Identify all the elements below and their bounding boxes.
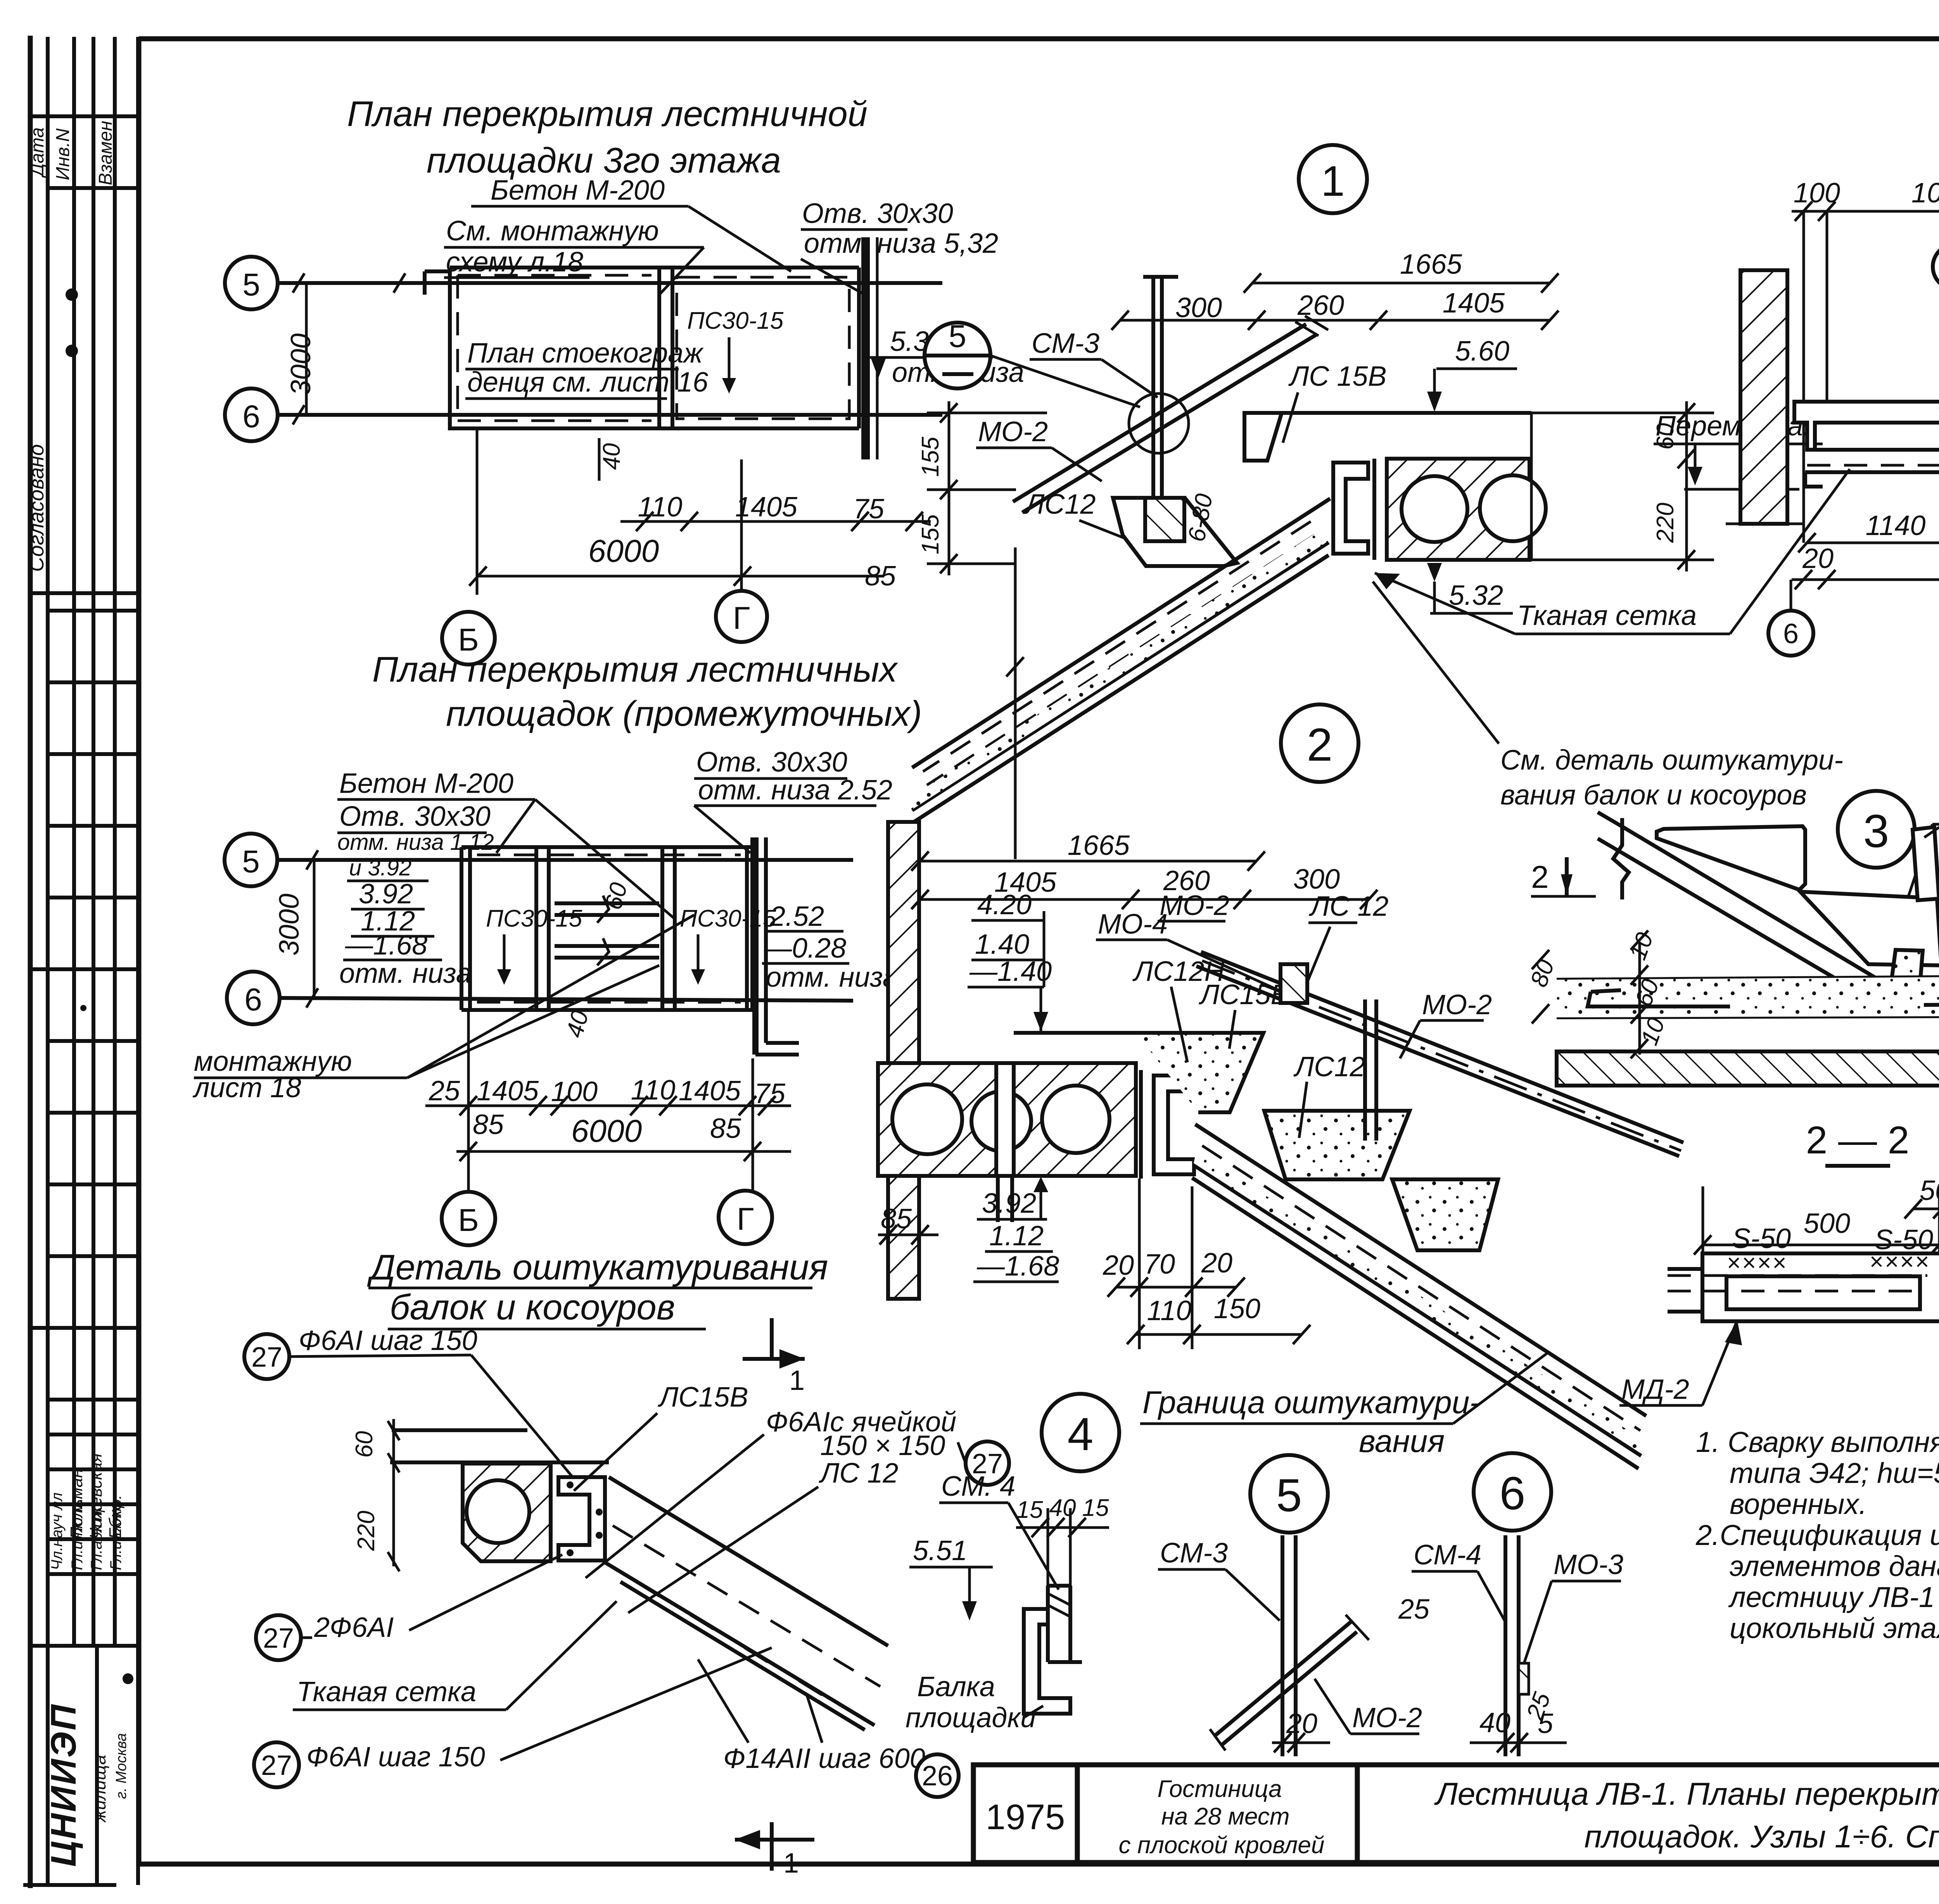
node circle 2: [1281, 704, 1358, 782]
svg-text:Лестница ЛВ-1. Планы перекрыти: Лестница ЛВ-1. Планы перекрытий лестничн…: [1434, 1776, 1939, 1812]
svg-text:27: 27: [261, 1750, 292, 1781]
svg-text:Бетон М-200: Бетон М-200: [339, 768, 513, 799]
svg-text:1665: 1665: [1400, 249, 1462, 280]
CNIIEP logo block: [44, 1703, 130, 1867]
svg-text:3.92: 3.92: [359, 879, 413, 910]
svg-text:5.60: 5.60: [1455, 336, 1509, 367]
dim 6000: [477, 575, 884, 578]
svg-text:Отв. 30х30: Отв. 30х30: [339, 801, 491, 832]
svg-text:Ф14АII шаг 600: Ф14АII шаг 600: [723, 1743, 925, 1774]
beton wedge: [1892, 950, 1923, 980]
svg-text:ЛС15В: ЛС15В: [658, 1382, 748, 1413]
svg-text:воренных.: воренных.: [1730, 1488, 1867, 1520]
svg-text:3.92: 3.92: [982, 1188, 1036, 1219]
landing beam trapezoid: [1113, 498, 1237, 566]
svg-text:—1.40: —1.40: [969, 956, 1052, 987]
svg-text:ЛС 12: ЛС 12: [1309, 891, 1388, 922]
svg-text:85: 85: [710, 1113, 741, 1144]
svg-text:6: 6: [242, 399, 260, 434]
svg-text:площадок. Узлы 1÷6. Специфика: площадок. Узлы 1÷6. Спецификации.: [1584, 1819, 1939, 1854]
svg-text:Взамен: Взамен: [95, 121, 116, 186]
landing floor top line: [1244, 411, 1531, 415]
svg-text:155: 155: [917, 437, 944, 477]
svg-text:∟40х4; ℓ=1000: ∟40х4; ℓ=1000: [1936, 792, 1939, 823]
svg-text:75: 75: [754, 1078, 786, 1109]
svg-text:6000: 6000: [571, 1113, 642, 1149]
svg-text:85: 85: [865, 561, 896, 592]
svg-text:См. монтажную: См. монтажную: [446, 216, 659, 247]
callout 27 mid: [256, 1615, 301, 1660]
landing slab outline: [425, 268, 859, 430]
svg-text:МД-2: МД-2: [1621, 1374, 1689, 1405]
svg-text:площадки: площадки: [906, 1702, 1036, 1733]
stair stringer diagonals: [609, 1477, 888, 1646]
hollow-core slab: [878, 1063, 1136, 1176]
svg-text:5: 5: [1538, 1708, 1554, 1739]
svg-text:лист 18: лист 18: [192, 1072, 301, 1103]
svg-text:денця см. лист 16: денця см. лист 16: [467, 367, 709, 398]
svg-text:2.52: 2.52: [769, 901, 824, 932]
svg-text:МО-2: МО-2: [1352, 1702, 1422, 1733]
svg-text:6: 6: [1783, 618, 1799, 649]
channel beam: [558, 1477, 605, 1560]
svg-text:Балка: Балка: [917, 1671, 995, 1702]
svg-text:220: 220: [1652, 503, 1679, 543]
vertical dim 3000: [305, 283, 308, 415]
outer sheet edge left: [28, 36, 33, 1888]
svg-text:1405: 1405: [735, 492, 798, 523]
callout 27: [966, 1441, 1009, 1485]
node circle 4: [1042, 1394, 1119, 1471]
svg-text:5.32: 5.32: [1449, 580, 1503, 611]
svg-text:Тканая сетка: Тканая сетка: [297, 1676, 476, 1707]
svg-text:ПС30-15: ПС30-15: [680, 905, 776, 932]
dim row: [425, 1105, 791, 1107]
svg-text:300: 300: [1293, 864, 1340, 895]
svg-text:4: 4: [1068, 1408, 1094, 1460]
node circle 5: [1250, 1455, 1328, 1533]
svg-text:отм. низа: отм. низа: [339, 958, 472, 989]
svg-text:типа Э42; hш=5мм, кроме ого-: типа Э42; hш=5мм, кроме ого-: [1730, 1457, 1939, 1489]
svg-text:Ф6АI шаг 150: Ф6АI шаг 150: [306, 1742, 485, 1773]
svg-text:5: 5: [242, 267, 260, 302]
plate body: [1702, 1253, 1939, 1321]
svg-text:цокольный этаж).: цокольный этаж).: [1730, 1612, 1939, 1644]
svg-text:25: 25: [1398, 1594, 1430, 1625]
svg-text:500: 500: [1804, 1208, 1850, 1239]
svg-text:План перекрытия лестничной: План перекрытия лестничной: [347, 94, 868, 134]
svg-text:лестницу ЛВ-1 (включая: лестницу ЛВ-1 (включая: [1728, 1581, 1939, 1613]
svg-text:25: 25: [429, 1075, 460, 1106]
svg-text:S-50: S-50: [1732, 1223, 1791, 1254]
svg-text:2.Спецификация и выборка: 2.Спецификация и выборка: [1695, 1519, 1939, 1551]
svg-text:70: 70: [1144, 1249, 1175, 1280]
svg-text:5: 5: [1276, 1469, 1302, 1521]
svg-text:150: 150: [1214, 1293, 1260, 1324]
svg-text:Чижевская: Чижевская: [86, 1453, 105, 1539]
svg-text:ПС30-15: ПС30-15: [486, 905, 582, 932]
svg-text:100: 100: [551, 1076, 598, 1107]
hollow core slab block: [463, 1464, 551, 1561]
svg-text:г. Москва: г. Москва: [113, 1733, 130, 1799]
svg-text:6: 6: [1500, 1467, 1526, 1519]
weld circle: [1129, 394, 1189, 453]
svg-text:110: 110: [638, 492, 683, 523]
svg-text:300: 300: [1175, 292, 1222, 323]
svg-text:Польман: Польман: [67, 1469, 86, 1539]
svg-text:Бетон М-200: Бетон М-200: [491, 175, 665, 206]
svg-text:1.40: 1.40: [975, 929, 1029, 960]
upper flight diagonals: [1201, 952, 1683, 1143]
left wall: [1740, 270, 1787, 524]
svg-text:1: 1: [783, 1848, 799, 1879]
wall right: [752, 837, 759, 1055]
svg-text:60: 60: [1652, 423, 1679, 450]
svg-text:1405: 1405: [1443, 288, 1505, 319]
svg-text:S-50: S-50: [1874, 1224, 1933, 1255]
svg-text:—1.68: —1.68: [345, 930, 427, 961]
svg-text:на 28 мест: на 28 мест: [1161, 1803, 1290, 1830]
svg-text:20: 20: [1802, 543, 1834, 574]
svg-text:площадки 3го этажа: площадки 3го этажа: [427, 141, 781, 180]
circle 26: [1933, 244, 1939, 289]
svg-text:с плоской кровлей: с плоской кровлей: [1119, 1832, 1325, 1859]
right edge + dims: [1530, 413, 1533, 560]
svg-text:схему л.18: схему л.18: [446, 247, 583, 278]
svg-text:Деталь оштукатуривания: Деталь оштукатуривания: [367, 1248, 828, 1287]
grid circles: [225, 834, 277, 886]
svg-text:Отв. 30х30: Отв. 30х30: [696, 747, 847, 778]
svg-text:МО-4: МО-4: [1098, 909, 1168, 940]
svg-text:26: 26: [922, 1761, 953, 1792]
section marks 1: [743, 1318, 805, 1359]
lower flight band: [1195, 1124, 1646, 1416]
svg-text:27: 27: [263, 1623, 294, 1654]
svg-text:отм. низа 5,32: отм. низа 5,32: [804, 228, 998, 259]
svg-text:МО-2: МО-2: [1422, 989, 1492, 1020]
svg-text:См. деталь оштукатури-: См. деталь оштукатури-: [1500, 745, 1843, 776]
lower flight band: [912, 499, 1330, 768]
callout 27 top: [244, 1334, 289, 1379]
6000 dim: [456, 1150, 791, 1153]
svg-text:1: 1: [1321, 157, 1345, 205]
wall right: [861, 237, 870, 459]
svg-text:Тканая сетка: Тканая сетка: [1517, 600, 1697, 631]
svg-text:План перекрытия лестничных: План перекрытия лестничных: [372, 650, 898, 689]
svg-text:85: 85: [473, 1109, 504, 1140]
svg-text:Гостиница: Гостиница: [1157, 1776, 1282, 1802]
svg-text:Инв.N: Инв.N: [53, 128, 73, 180]
channel bracket: [1024, 1586, 1082, 1714]
svg-text:15: 15: [1016, 1497, 1043, 1523]
callout 27 bottom: [254, 1742, 299, 1787]
svg-text:1975: 1975: [986, 1797, 1065, 1837]
grid circle 5: [225, 257, 278, 309]
svg-text:1405: 1405: [477, 1075, 539, 1106]
flight stringer diagonals: [1622, 827, 1892, 988]
central vertical anchor: [1151, 277, 1155, 541]
svg-text:СМ. 4: СМ. 4: [941, 1471, 1015, 1502]
svg-text:5: 5: [242, 844, 260, 879]
svg-text:75: 75: [853, 494, 885, 525]
svg-text:Отв. 30х30: Отв. 30х30: [802, 198, 953, 229]
svg-text:вания балок и косоуров: вания балок и косоуров: [1500, 780, 1807, 811]
left dims 155/155: [948, 401, 950, 575]
level arrow down to slab: [1040, 987, 1042, 1033]
svg-text:150 × 150: 150 × 150: [820, 1430, 945, 1461]
svg-text:ЛС 12: ЛС 12: [819, 1458, 898, 1489]
svg-text:ПС30-15: ПС30-15: [687, 307, 784, 334]
svg-text:Дата: Дата: [27, 127, 48, 178]
svg-text:—1.68: —1.68: [976, 1251, 1059, 1282]
svg-text:15: 15: [1082, 1495, 1109, 1521]
svg-text:1140: 1140: [1866, 510, 1926, 541]
svg-text:3: 3: [1863, 805, 1889, 857]
svg-text:МО-3: МО-3: [1554, 1549, 1623, 1580]
svg-text:50: 50: [1920, 1175, 1939, 1206]
svg-text:СМ-3: СМ-3: [1032, 328, 1099, 359]
svg-text:3000: 3000: [274, 894, 305, 956]
svg-text:вания: вания: [1359, 1424, 1445, 1459]
svg-text:площадок (промежуточных): площадок (промежуточных): [446, 694, 922, 734]
svg-text:1665: 1665: [1068, 830, 1130, 861]
svg-text:Ф6АI шаг 150: Ф6АI шаг 150: [299, 1325, 477, 1356]
svg-text:2: 2: [1531, 860, 1549, 895]
stamp column vertical rules: [46, 37, 50, 1646]
letter circles: [442, 612, 495, 665]
channel: [1154, 1075, 1194, 1174]
svg-text:5: 5: [949, 319, 966, 354]
svg-text:СМ-4: СМ-4: [1414, 1540, 1481, 1571]
node circle 6: [1474, 1453, 1551, 1531]
svg-text:МО-2: МО-2: [1160, 890, 1229, 921]
svg-text:2: 2: [1307, 719, 1333, 771]
svg-text:—0.28: —0.28: [764, 933, 846, 964]
svg-text:20: 20: [1201, 1248, 1232, 1279]
svg-text:отм. низа: отм. низа: [766, 962, 898, 993]
svg-text:элементов дана на всю: элементов дана на всю: [1730, 1550, 1939, 1582]
sheet inner frame: [139, 36, 1939, 41]
svg-text:ЛС 15В: ЛС 15В: [1288, 361, 1386, 392]
ground slab: [1557, 976, 1939, 980]
svg-text:110: 110: [1147, 1295, 1192, 1326]
svg-text:1.12: 1.12: [989, 1220, 1044, 1251]
svg-text:Ебко: Ебко: [106, 1501, 125, 1539]
svg-text:ЛС12: ЛС12: [1024, 489, 1096, 520]
step wedge 2: [1800, 892, 1939, 965]
svg-text:6: 6: [244, 982, 262, 1017]
horizontal separators upper block: [30, 114, 138, 118]
dims 110 1405 75: [620, 520, 931, 523]
svg-text:Согласовано: Согласовано: [25, 444, 48, 572]
svg-text:2Ф6АI: 2Ф6АI: [314, 1612, 394, 1643]
left wall hatched: [888, 822, 919, 1299]
svg-text:ЛС12: ЛС12: [1293, 1051, 1365, 1082]
grid circles: [1768, 611, 1813, 656]
angle bracket piece: [1913, 827, 1939, 900]
svg-text:3000: 3000: [285, 333, 316, 395]
svg-text:6000: 6000: [588, 533, 659, 569]
svg-text:Чл.науч лл: Чл.науч лл: [48, 1493, 66, 1570]
svg-text:60: 60: [351, 1431, 378, 1458]
slab: [461, 837, 752, 1010]
svg-text:2 — 2: 2 — 2: [1806, 1119, 1910, 1162]
plaster stipple zones: [1136, 1033, 1263, 1112]
svg-text:4.20: 4.20: [977, 889, 1032, 920]
svg-text:40: 40: [1479, 1707, 1510, 1738]
svg-text:27: 27: [251, 1342, 282, 1373]
svg-text:110: 110: [631, 1075, 676, 1106]
svg-text:40: 40: [1049, 1495, 1076, 1521]
svg-text:40: 40: [598, 443, 625, 470]
axis bubble 5: [925, 323, 990, 388]
slab section: [392, 1428, 527, 1432]
svg-text:Б: Б: [458, 1203, 479, 1238]
svg-text:1000: 1000: [1911, 178, 1939, 209]
svg-text:Г: Г: [737, 1201, 754, 1237]
channel left of slab: [1333, 463, 1368, 554]
svg-text:260: 260: [1297, 290, 1344, 321]
svg-text:85: 85: [881, 1203, 912, 1234]
svg-text:балок и косоуров: балок и косоуров: [390, 1288, 675, 1327]
svg-text:жилища: жилища: [89, 1755, 109, 1823]
svg-text:СМ-3: СМ-3: [1160, 1538, 1228, 1569]
svg-text:ЦНИИЭП: ЦНИИЭП: [44, 1703, 83, 1867]
svg-text:220: 220: [353, 1511, 380, 1551]
floor top line: [1014, 1031, 1136, 1035]
svg-text:Г: Г: [733, 601, 750, 636]
svg-text:1: 1: [789, 1365, 805, 1396]
svg-text:Граница оштукатури-: Граница оштукатури-: [1142, 1385, 1480, 1420]
svg-text:5.51: 5.51: [913, 1535, 967, 1566]
node circle 1: [1299, 145, 1367, 213]
svg-text:20: 20: [1103, 1250, 1134, 1281]
svg-text:1405: 1405: [679, 1075, 741, 1106]
anchor plate block: [1145, 498, 1184, 541]
anchor strip vertical: [1363, 999, 1367, 1141]
svg-text:МО-2: МО-2: [978, 416, 1048, 447]
svg-text:1. Сварку выполнять электродам: 1. Сварку выполнять электродами: [1696, 1426, 1939, 1458]
step wedge 1: [1657, 826, 1805, 890]
extension verticals: [1804, 211, 1939, 580]
grid circle 6: [225, 388, 278, 441]
hollow core slab: [1387, 459, 1529, 560]
svg-text:155: 155: [917, 514, 944, 554]
upper flight diagonals: [1013, 324, 1306, 502]
svg-text:План стоекограж: План стоекограж: [467, 338, 704, 369]
left slab unit: [1794, 402, 1939, 450]
svg-text:отм. низа 2.52: отм. низа 2.52: [698, 775, 892, 806]
